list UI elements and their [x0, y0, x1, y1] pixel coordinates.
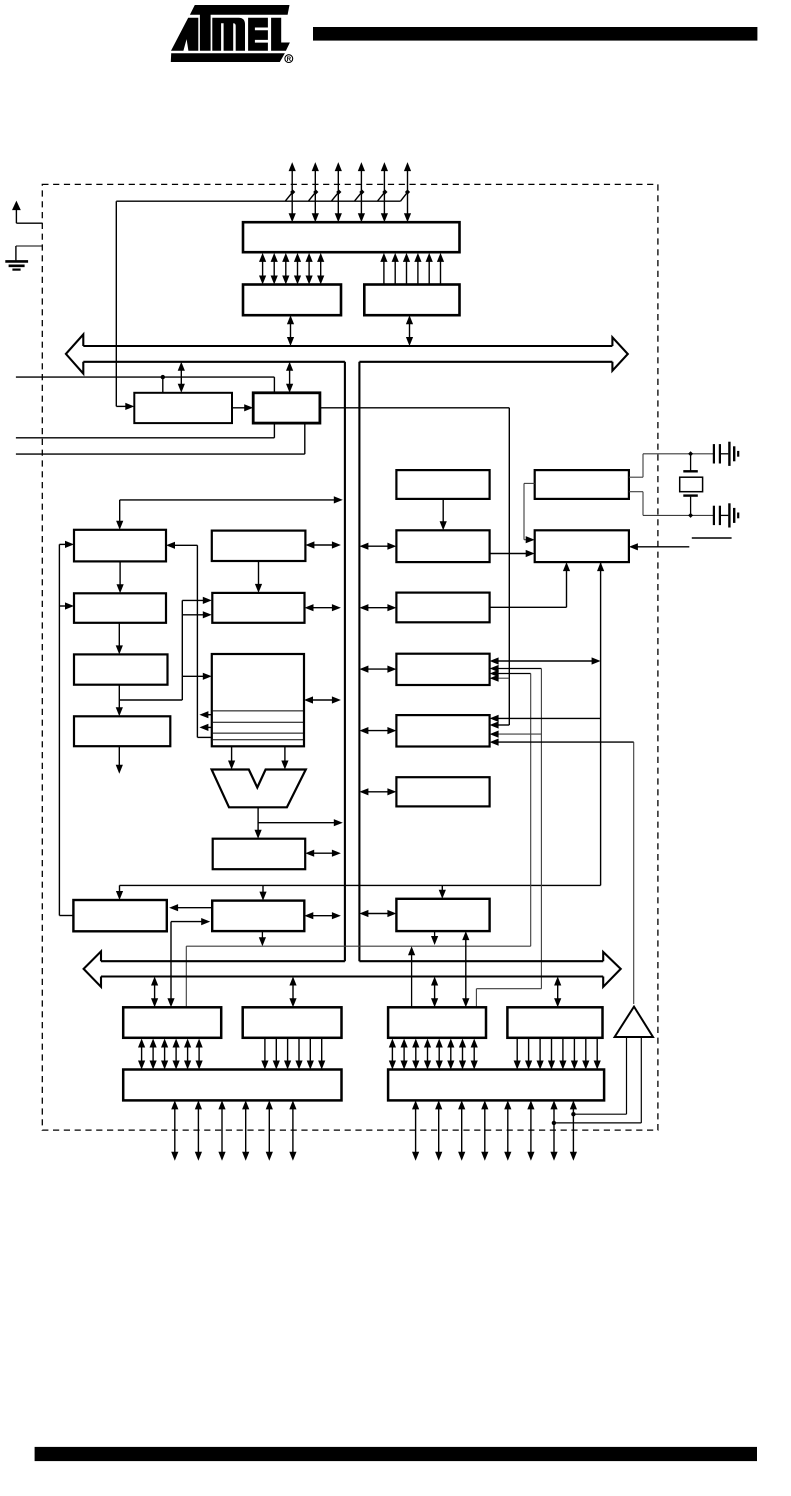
- port pin PD0: [415, 1105, 417, 1156]
- drivers-interfaceA bit line 1: [273, 257, 275, 280]
- vertical bus trunk left line: [344, 362, 346, 961]
- wire: clock/ctrl long rail to bottom-left: [116, 562, 604, 901]
- port pin line PA1: [312, 162, 319, 222]
- port pin PB1: [197, 1105, 199, 1156]
- arrow sram to instruction register: [118, 623, 120, 650]
- portB driver bit 3: [175, 1043, 177, 1065]
- drivers-interfaceA bit line 2: [285, 257, 287, 280]
- capacitor C1 with ground: [714, 442, 738, 466]
- R7 down arrow to serial rail: [431, 931, 438, 945]
- block: status register: [213, 839, 306, 870]
- block: stack pointer: [74, 530, 166, 562]
- arrow M1 to M2: [258, 561, 260, 588]
- tap junction PA5: [405, 189, 410, 194]
- block: port D digital interface: [388, 1007, 486, 1038]
- portD driver bit 3: [427, 1043, 429, 1065]
- wire: left rail into program counter: [116, 201, 134, 410]
- portD driver bit 4: [438, 1043, 440, 1065]
- 8-bit data bus (lower): [84, 951, 621, 986]
- portD driver bit 1: [403, 1043, 405, 1065]
- junction on pin line 1: [161, 375, 165, 379]
- port pin PB2: [221, 1105, 223, 1156]
- block: port C digital interface: [243, 1007, 342, 1038]
- trunk-R4 arrow: [363, 668, 392, 670]
- arrow stack pointer to sram: [119, 561, 121, 588]
- block: register file: [212, 654, 304, 746]
- portE driver bit 7: [596, 1039, 598, 1066]
- crystal Y1: [680, 454, 703, 516]
- analog supply wire: [116, 192, 407, 201]
- block: port B/C drivers: [123, 1070, 341, 1101]
- portB driver bit 0: [141, 1043, 143, 1065]
- block: instruction/IO block: [212, 901, 304, 932]
- block: spi: [396, 777, 489, 806]
- status register-bus trunk arrow: [309, 852, 337, 854]
- dashed chip boundary: [42, 184, 658, 1130]
- port pin PD6: [553, 1105, 555, 1156]
- portB driver bit 1: [152, 1043, 154, 1065]
- M1-bus trunk arrow: [309, 544, 337, 546]
- comparator input AIN1: [554, 1037, 641, 1123]
- bus-portE arrow: [557, 981, 559, 1003]
- portE driver bit 2: [539, 1039, 541, 1066]
- portC driver bit 0: [264, 1039, 266, 1066]
- wire: bus tap to program counter fork: [116, 496, 343, 530]
- footer rule bar: [35, 1447, 757, 1461]
- wire: decoder junction to register file inputs: [119, 597, 212, 700]
- block: control registers: [73, 900, 166, 931]
- drivers-interfaceB bit line 0: [383, 257, 385, 284]
- drivers-interfaceB bit line 4: [428, 257, 430, 284]
- portB driver bit 4: [187, 1043, 189, 1065]
- pull-up tap slash PA2: [331, 189, 341, 201]
- pull-up tap slash PA1: [308, 189, 318, 201]
- bus-program flash arrow: [289, 366, 291, 388]
- trunk-R6 arrow: [363, 791, 392, 793]
- ALU output wire: [255, 807, 343, 838]
- block: interrupt/io registers: [396, 899, 489, 931]
- portD driver bit 7: [473, 1043, 475, 1065]
- block: eeprom: [396, 593, 489, 623]
- pull-up tap slash PA3: [354, 189, 364, 201]
- junction AIN0 on pin: [571, 1112, 575, 1116]
- timer wire to usart rail: [490, 731, 542, 738]
- drivers-interfaceA bit line 3: [297, 257, 299, 280]
- port pin PD5: [530, 1105, 532, 1156]
- drivers-interfaceB bit line 1: [394, 257, 396, 284]
- portC driver bit 4: [309, 1039, 311, 1066]
- register file row dividers: [213, 711, 303, 740]
- port pin line PA2: [335, 162, 342, 222]
- pull-up tap slash PA0: [285, 189, 295, 201]
- port pin PD1: [438, 1105, 440, 1156]
- wire: program flash to peripherals chain: [320, 408, 509, 729]
- portE driver bit 5: [573, 1039, 575, 1066]
- drivers-interfaceB bit line 5: [440, 257, 442, 284]
- wire XTAL2: [629, 492, 715, 516]
- reset pin line: [629, 543, 689, 550]
- portD driver bit 6: [462, 1043, 464, 1065]
- port pin line PA3: [358, 162, 365, 222]
- portE driver bit 3: [551, 1039, 553, 1066]
- vertical bus trunk right line: [358, 362, 360, 961]
- junction XTAL2: [688, 513, 693, 518]
- bus-portC arrow: [292, 981, 294, 1003]
- drivers-interfaceB bit line 2: [406, 257, 408, 284]
- Atmel corporate logo: [171, 5, 293, 63]
- block: sram: [74, 593, 166, 623]
- port pin PB3: [245, 1105, 247, 1156]
- VCC supply pin: [12, 201, 42, 224]
- interfaceB-bus arrow: [409, 320, 411, 342]
- arrow instruction register to instruction decoder: [116, 685, 123, 717]
- bus-portD arrow: [434, 981, 436, 1003]
- portE driver bit 6: [585, 1039, 587, 1066]
- portD driver bit 5: [450, 1043, 452, 1065]
- timer capture wire from comparator: [490, 739, 634, 1005]
- wire eeprom to timing: [490, 562, 570, 607]
- block: port B digital interface: [123, 1007, 221, 1038]
- block: port digital interface B: [364, 285, 459, 316]
- portC driver bit 1: [275, 1039, 277, 1066]
- usart-clock rail arrow: [490, 657, 601, 664]
- trunk-R5 arrow: [363, 730, 392, 732]
- block: usart: [396, 654, 489, 685]
- port pin PD4: [507, 1105, 509, 1156]
- capacitor C2 with ground: [714, 503, 738, 527]
- block: interrupt unit: [396, 530, 489, 562]
- block: general purpose registers ctrl: [212, 531, 306, 561]
- portC driver bit 2: [287, 1039, 289, 1066]
- port pin line PA5: [404, 162, 411, 222]
- svg-text:R: R: [287, 56, 292, 63]
- drivers-interfaceB bit line 3: [417, 257, 419, 284]
- feedback rail left of columns: [59, 541, 74, 916]
- M2-bus trunk arrow: [309, 607, 337, 609]
- block: program counter: [134, 393, 232, 423]
- block: port drivers/buffers: [243, 222, 460, 252]
- arrow M5 down to serial rail: [259, 931, 266, 946]
- portE driver bit 1: [528, 1039, 530, 1066]
- wire: interrupt rail into M5 and port interface: [167, 918, 210, 1007]
- portE driver bit 4: [562, 1039, 564, 1066]
- analog comparator U2: [615, 1007, 653, 1037]
- portD driver bit 2: [415, 1043, 417, 1065]
- portB driver bit 5: [198, 1043, 200, 1065]
- arrow program counter to program flash: [232, 407, 249, 409]
- block: port digital interface A: [243, 285, 341, 316]
- wire R7 up-arrow to serial rail: [434, 931, 436, 942]
- usart tap from flash chain: [490, 675, 510, 682]
- port pin line PA4: [381, 162, 388, 222]
- block: program flash: [253, 393, 320, 423]
- arrow R1 to R2: [442, 499, 444, 526]
- block: port E digital interface: [507, 1007, 602, 1038]
- R7-portD arrow: [465, 936, 467, 1003]
- register file to ALU right arrow: [284, 746, 286, 765]
- portC driver bit 3: [298, 1039, 300, 1066]
- block: instruction register: [74, 654, 168, 684]
- port pin line PA0: [289, 162, 296, 222]
- trunk-R7 arrow: [363, 913, 392, 915]
- serial rail wire above lower bus: [186, 946, 530, 1007]
- port pin PB5: [292, 1105, 294, 1156]
- pin label line: [692, 537, 732, 539]
- external pin line 1 (reset): [16, 377, 275, 393]
- M5-bus trunk arrow: [308, 915, 337, 917]
- block: timing and control: [535, 530, 629, 562]
- timer wire to clock rail: [490, 715, 601, 722]
- interfaceA-bus arrow: [290, 320, 292, 342]
- arrow interrupt unit to timing: [490, 553, 531, 555]
- portB driver bit 2: [164, 1043, 166, 1065]
- timer wire from flash chain: [494, 724, 510, 726]
- wire: register file side rail: [166, 542, 212, 738]
- bus-portB arrow: [154, 981, 156, 1003]
- GND ground pin: [5, 246, 42, 270]
- port pin PD7: [572, 1105, 574, 1156]
- block: instruction decoder: [74, 716, 170, 746]
- port pin PB0: [174, 1105, 176, 1156]
- register file to ALU left arrow: [231, 746, 233, 765]
- block: port D/E drivers: [388, 1070, 604, 1101]
- portD rail up-arrow: [408, 946, 415, 1007]
- ALU: [212, 770, 306, 808]
- arrow M5 to control registers: [169, 904, 212, 911]
- block: timer/counters: [396, 715, 489, 746]
- pull-up tap slash PA4: [377, 189, 387, 201]
- portC driver bit 5: [321, 1039, 323, 1066]
- drivers-interfaceA bit line 4: [308, 257, 310, 280]
- bus-program counter arrow: [180, 366, 182, 388]
- wire XTAL1: [629, 454, 715, 477]
- external pin line 2 (xtal1): [16, 423, 275, 438]
- junction AIN1 on pin: [552, 1121, 556, 1125]
- 8-bit data bus (upper): [66, 334, 628, 373]
- register file-bus trunk arrow: [308, 699, 337, 701]
- external pin line 3 (xtal2): [16, 423, 305, 454]
- portE driver bit 0: [516, 1039, 518, 1066]
- block: x y z pointer registers: [212, 593, 304, 623]
- port pin PD3: [484, 1105, 486, 1156]
- block: oscillator: [535, 470, 629, 499]
- drivers-interfaceA bit line 5: [320, 257, 322, 280]
- comparator input AIN0: [573, 1037, 626, 1114]
- trunk-R3 arrow: [363, 607, 392, 609]
- junction XTAL1: [688, 451, 693, 456]
- wire: oscillator to timing hook: [524, 483, 535, 543]
- header rule bar: [313, 27, 757, 41]
- usart wire to port D: [476, 665, 541, 1007]
- trunk-R2 arrow: [363, 545, 392, 547]
- port pin PD2: [461, 1105, 463, 1156]
- block: mcu ctrl and timing: [396, 470, 489, 499]
- port pin PB4: [268, 1105, 270, 1156]
- portD driver bit 0: [391, 1043, 393, 1065]
- usart wire to port B rail: [490, 670, 531, 946]
- drivers-interfaceA bit line 0: [262, 257, 264, 280]
- control lines arrow out of instruction decoder: [116, 746, 123, 774]
